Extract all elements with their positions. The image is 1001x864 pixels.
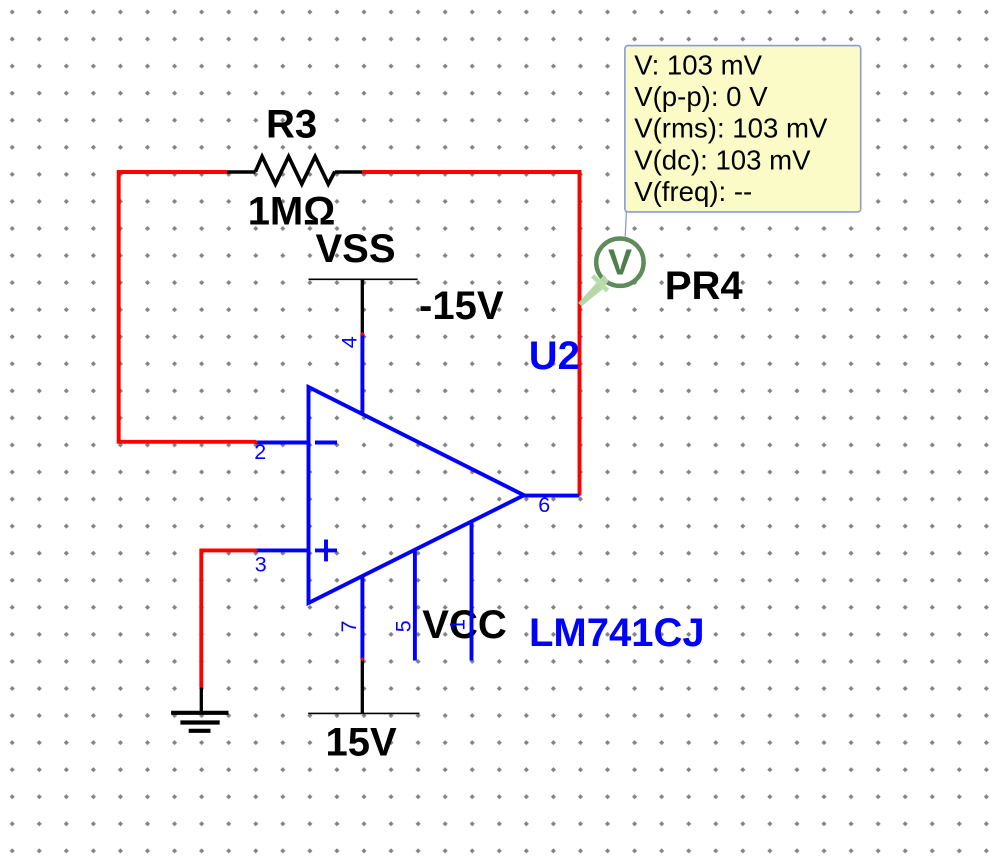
op-amp pin 7 lead [360, 577, 364, 660]
ground bar 3 [189, 729, 211, 733]
wire: red non-inverting input to ground [201, 550, 256, 687]
svg-text:5: 5 [392, 620, 416, 632]
svg-text:V(freq): --: V(freq): -- [634, 176, 752, 207]
probe PR4 needle upper nub [599, 275, 608, 286]
svg-text:LM741CJ: LM741CJ [529, 611, 705, 655]
probe PR4 needle shaft [578, 281, 605, 306]
op-amp pin 6 output lead [524, 494, 580, 498]
svg-text:V(rms): 103 mV: V(rms): 103 mV [634, 113, 828, 144]
svg-text:3: 3 [255, 552, 267, 576]
junction dot pin4 [360, 332, 364, 336]
op-amp minus symbol [315, 441, 337, 445]
svg-text:V: V [608, 242, 632, 283]
probe PR4 needle collar [591, 274, 609, 292]
op-amp pin 1 lead [470, 522, 474, 661]
op-amp pin 4 lead [360, 334, 364, 414]
svg-text:-15V: -15V [419, 284, 504, 328]
junction dot pin2 [254, 440, 258, 444]
svg-text:4: 4 [337, 336, 361, 348]
op-amp pin 3 lead [256, 548, 309, 552]
wire: red top-right segment to output [362, 172, 579, 496]
ground bar 1 [171, 711, 228, 715]
svg-text:V(dc): 103 mV: V(dc): 103 mV [634, 144, 811, 175]
svg-text:PR4: PR4 [665, 264, 744, 308]
op-amp pin 2 lead [256, 441, 309, 445]
svg-text:6: 6 [538, 493, 550, 517]
resistor R3 lead right [335, 170, 362, 174]
resistor R3 zigzag [256, 157, 335, 185]
svg-text:V(p-p): 0 V: V(p-p): 0 V [634, 81, 768, 112]
probe readout box [625, 46, 861, 212]
probe callout connector line [625, 212, 626, 237]
op-amp plus symbol [315, 540, 337, 562]
svg-text:U2: U2 [529, 334, 580, 378]
op-amp pin 5 lead [413, 550, 417, 660]
svg-text:VSS: VSS [316, 227, 396, 271]
VCC power symbol bar [308, 712, 419, 714]
VCC power symbol stem [361, 659, 364, 713]
ground bar 2 [180, 720, 219, 724]
svg-text:V: 103 mV: V: 103 mV [634, 49, 762, 80]
ground stem [200, 688, 203, 713]
svg-text:2: 2 [254, 440, 266, 464]
resistor R3 lead left [227, 170, 256, 174]
VSS power symbol stem [361, 279, 364, 334]
svg-text:7: 7 [337, 621, 361, 633]
svg-text:R3: R3 [266, 103, 317, 147]
junction dot pin3 [254, 548, 258, 552]
VSS power symbol bar [309, 278, 418, 280]
svg-text:1: 1 [446, 619, 470, 631]
junction dot pin7 [360, 657, 364, 661]
svg-text:15V: 15V [326, 720, 397, 764]
wire: red feedback top-left segment [119, 172, 256, 442]
probe PR4 circle [596, 239, 643, 286]
op-amp U2 triangle [309, 387, 525, 603]
